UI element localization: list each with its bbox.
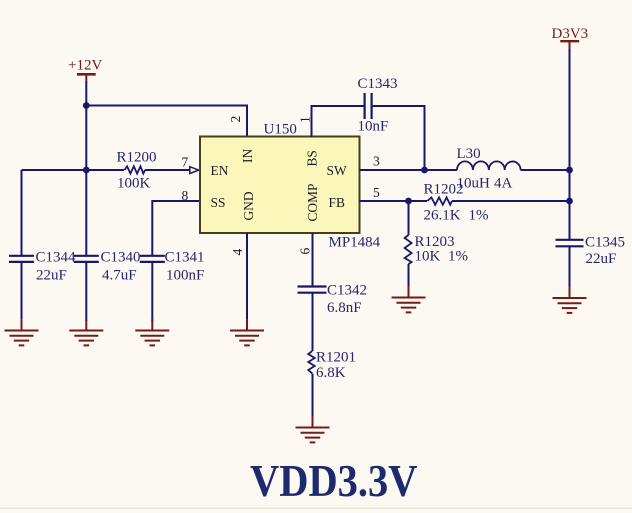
wire +12V vertical	[85, 82, 87, 170]
wire C1340 branch	[85, 170, 87, 256]
svg-text:10K: 10K	[415, 249, 441, 265]
svg-text:C1340: C1340	[101, 250, 141, 266]
svg-text:C1342: C1342	[327, 283, 367, 299]
svg-text:R1201: R1201	[316, 350, 356, 366]
junction FB divider	[405, 198, 412, 205]
wire EN row left	[22, 169, 125, 171]
inductor L30	[457, 161, 521, 170]
svg-text:100nF: 100nF	[166, 268, 204, 284]
capacitor C1342	[298, 287, 327, 293]
wire C1341 to ground	[151, 262, 153, 321]
junction SW / C1343	[421, 167, 428, 174]
capacitor C1341	[140, 256, 165, 262]
svg-text:C1344: C1344	[36, 250, 77, 266]
svg-text:1%: 1%	[448, 249, 468, 265]
resistor R1201	[308, 351, 314, 374]
IC U1 body (MP1484)	[200, 137, 360, 234]
svg-text:6.8nF: 6.8nF	[327, 300, 362, 316]
ground C1344	[5, 319, 39, 345]
svg-text:4: 4	[230, 249, 245, 256]
svg-text:6.8K: 6.8K	[316, 365, 346, 381]
capacitor C1343	[365, 93, 372, 119]
svg-text:1: 1	[298, 116, 313, 123]
svg-text:GND: GND	[241, 191, 256, 220]
wire right of C1343 down to SW	[373, 106, 425, 170]
ground C1345	[553, 286, 587, 313]
svg-text:R1200: R1200	[117, 150, 157, 166]
svg-text:+12V: +12V	[68, 58, 102, 74]
wire SW row	[360, 169, 458, 171]
junction +12V / IN	[83, 102, 90, 109]
wire L30 to output node	[521, 169, 570, 171]
ground C1341	[135, 319, 169, 345]
svg-text:R1202: R1202	[424, 182, 464, 198]
svg-text:C1345: C1345	[585, 235, 625, 251]
capacitor C1340	[74, 256, 99, 262]
svg-text:6: 6	[297, 248, 312, 255]
svg-text:100K: 100K	[117, 176, 151, 192]
wire R1201 to ground	[312, 374, 314, 418]
resistor R1202	[427, 197, 452, 204]
svg-text:FB: FB	[329, 195, 345, 210]
wire FB junction to R1203	[408, 201, 410, 235]
svg-text:3: 3	[373, 154, 380, 169]
wire C1344 branch	[21, 170, 23, 256]
svg-text:D3V3: D3V3	[552, 26, 589, 42]
wire COMP pin 6 down	[312, 233, 314, 287]
svg-text:4.7uF: 4.7uF	[102, 268, 137, 284]
svg-text:VDD3.3V: VDD3.3V	[250, 455, 418, 506]
pin arrow EN input	[190, 167, 199, 174]
wire C1340 to ground	[85, 262, 87, 321]
wire GND pin 4 down	[246, 233, 248, 321]
wire C1345 to ground	[569, 246, 571, 288]
svg-text:SW: SW	[327, 163, 347, 178]
wire R1200 to EN	[145, 169, 190, 171]
power symbol D3V3	[552, 26, 589, 50]
capacitor C1345	[556, 240, 584, 247]
wire C1342 to R1201	[312, 293, 314, 351]
wire C1344 to ground	[21, 262, 23, 321]
wire D3V3 vertical	[569, 49, 571, 240]
svg-text:L30: L30	[457, 146, 481, 162]
svg-text:8: 8	[182, 188, 189, 203]
junction output / FB row	[566, 198, 573, 205]
wire BS pin up and left of C1343	[312, 106, 364, 137]
svg-text:26.1K: 26.1K	[424, 208, 461, 224]
wire +12V to pin IN	[86, 106, 247, 138]
resistor R1200	[125, 166, 146, 173]
svg-text:IN: IN	[240, 149, 255, 163]
sheet border line	[0, 508, 632, 509]
ground R1201	[296, 416, 330, 442]
wire R1203 to ground	[408, 264, 410, 288]
ground pin 4	[230, 319, 264, 345]
svg-text:4A: 4A	[494, 176, 513, 192]
svg-text:1%: 1%	[469, 208, 489, 224]
svg-text:SS: SS	[211, 195, 226, 210]
ground C1340	[69, 319, 103, 345]
svg-text:EN: EN	[211, 163, 229, 178]
resistor R1203	[405, 235, 412, 264]
ground R1203	[392, 286, 426, 312]
junction output / SW row	[566, 167, 573, 174]
wire R1202 to output node	[452, 200, 570, 202]
power symbol +12V	[68, 58, 102, 84]
svg-text:10nF: 10nF	[358, 119, 389, 135]
wire FB row left	[360, 200, 428, 202]
svg-text:BS: BS	[305, 150, 320, 166]
capacitor C1344	[9, 256, 34, 262]
svg-text:U150: U150	[264, 122, 297, 138]
svg-text:2: 2	[228, 116, 243, 123]
junction +12V / EN row	[83, 167, 90, 174]
svg-text:7: 7	[182, 155, 189, 170]
svg-text:5: 5	[373, 185, 380, 200]
svg-text:C1343: C1343	[358, 76, 398, 92]
svg-text:C1341: C1341	[165, 250, 205, 266]
svg-text:MP1484: MP1484	[329, 235, 381, 251]
wire SS to C1341	[152, 201, 200, 256]
svg-text:22uF: 22uF	[586, 251, 617, 267]
svg-text:22uF: 22uF	[36, 268, 67, 284]
svg-text:COMP: COMP	[305, 184, 320, 222]
